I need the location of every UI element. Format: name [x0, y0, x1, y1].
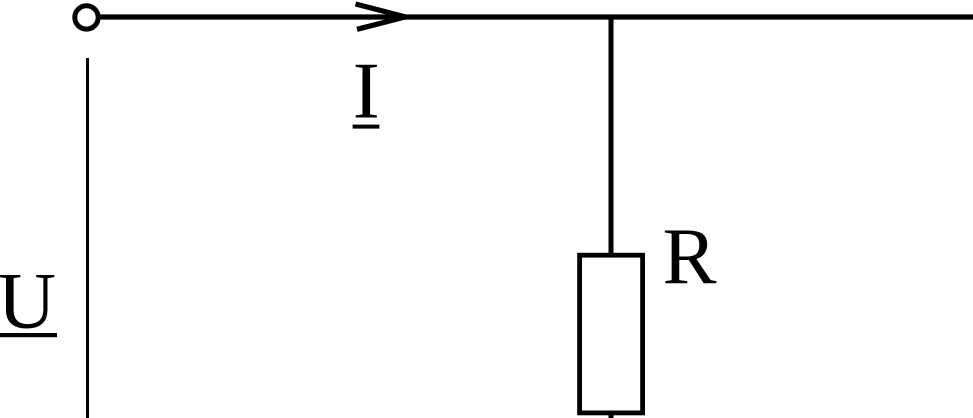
wire (stub below resistor, cropped at image bottom)	[609, 412, 614, 418]
svg-text:I: I	[353, 46, 380, 136]
current arrow for I (open arrowhead on top wire)	[356, 4, 406, 29]
terminal (input node, open circle)	[75, 6, 98, 29]
resistor R (rectangle body)	[580, 255, 643, 413]
svg-text:U: U	[0, 256, 56, 346]
underline of I	[353, 125, 380, 129]
svg-text:R: R	[663, 211, 717, 301]
wire (left vertical line below terminal, voltage reference)	[86, 58, 89, 418]
wire (top horizontal from terminal to right edge)	[98, 14, 973, 19]
wire (vertical branch from top wire down to resistor)	[609, 17, 614, 256]
underline of U	[0, 333, 57, 337]
